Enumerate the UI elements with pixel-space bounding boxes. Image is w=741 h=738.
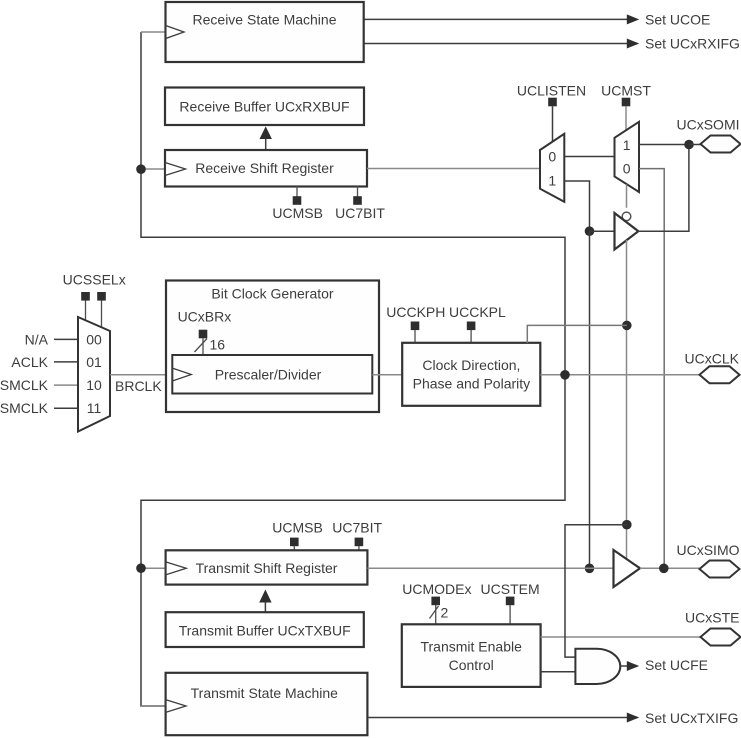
svg-text:UC7BIT: UC7BIT	[332, 519, 382, 535]
svg-text:Set UCxRXIFG: Set UCxRXIFG	[645, 36, 740, 52]
svg-text:SMCLK: SMCLK	[0, 377, 49, 393]
wire SMCLK input (selected, gray)	[54, 384, 78, 386]
node junction at buffer input	[585, 226, 595, 236]
wire UCSTEM tap	[509, 605, 511, 624]
pin square UCMSB (transmit)	[290, 538, 299, 547]
svg-text:Set UCFE: Set UCFE	[645, 657, 708, 673]
svg-text:Transmit Shift Register: Transmit Shift Register	[196, 560, 338, 576]
wire master mux row1 to SOMI pad	[639, 144, 689, 146]
node junction at SOMI pad	[684, 140, 694, 150]
pin square UCMST	[622, 98, 631, 107]
svg-text:Transmit Enable: Transmit Enable	[420, 639, 522, 655]
wire clock direction control from UCMST	[527, 325, 627, 343]
box Transmit Enable Control	[402, 624, 541, 687]
wire UCLISTEN control	[552, 106, 554, 142]
bus slash 2	[430, 606, 439, 619]
wire Set UCxRXIFG	[364, 39, 640, 49]
svg-text:UCCKPL: UCCKPL	[449, 304, 506, 320]
svg-text:UCMODEx: UCMODEx	[402, 581, 471, 597]
wire listen mux row1 loop down	[564, 181, 589, 231]
wire SOMI buffer output up to pad	[638, 145, 689, 232]
box Bit Clock Generator	[166, 281, 379, 413]
pin square UC7BIT (transmit)	[355, 538, 364, 547]
wire UCCKPH tap	[414, 330, 416, 343]
wire loopback vertical to transmit output	[589, 231, 591, 568]
svg-text:Set UCxTXIFG: Set UCxTXIFG	[645, 710, 738, 726]
box Receive Buffer UCxRXBUF	[165, 88, 364, 126]
svg-text:SMCLK: SMCLK	[0, 400, 49, 416]
svg-text:Control: Control	[449, 657, 494, 673]
mux UCLISTEN	[540, 134, 564, 202]
svg-text:00: 00	[86, 331, 102, 347]
wire SIMO buffer output to pad	[640, 567, 701, 569]
svg-text:UCSSELx: UCSSELx	[63, 271, 126, 287]
wire BRCLK	[110, 374, 172, 376]
svg-text:UCxBRx: UCxBRx	[178, 309, 232, 325]
wire UCCKPL tap	[470, 330, 472, 343]
pin square UCSTEM	[506, 597, 515, 606]
wire UCSSELx select lines	[85, 301, 87, 321]
wire and-gate lower input	[541, 671, 576, 673]
svg-text:UCMSB: UCMSB	[272, 205, 323, 221]
node junction direction control	[622, 321, 632, 331]
pin square UCCKPH	[411, 322, 420, 331]
box Prescaler/Divider	[172, 355, 372, 394]
pin square UCLISTEN	[548, 98, 557, 107]
wire UCMST rail (below buffer)	[626, 240, 628, 559]
svg-text:UCxCLK: UCxCLK	[685, 350, 740, 366]
clock input triangle (transmit shift register)	[166, 562, 186, 575]
svg-text:Bit Clock Generator: Bit Clock Generator	[211, 286, 333, 302]
arrow transmit buffer to shift register	[259, 590, 271, 612]
clock input triangle (transmit state machine)	[166, 700, 186, 713]
svg-text:ACLK: ACLK	[11, 354, 48, 370]
pin square UCMODEx	[431, 597, 440, 606]
svg-text:UCSTEM: UCSTEM	[481, 581, 540, 597]
svg-text:UCCKPH: UCCKPH	[386, 304, 445, 320]
svg-text:BRCLK: BRCLK	[115, 378, 162, 394]
pin square UCSSELx bit0	[81, 292, 90, 301]
pad UCxSIMO	[700, 561, 740, 578]
svg-text:16: 16	[210, 336, 226, 352]
wire UCMSB tap (receive)	[296, 186, 298, 197]
node junction receive clock	[136, 164, 146, 174]
svg-text:01: 01	[86, 354, 102, 370]
wire stub to transmit shift register clock	[141, 567, 166, 569]
svg-text:N/A: N/A	[25, 331, 49, 347]
pad UCxSOMI	[701, 136, 741, 153]
svg-text:UCMST: UCMST	[601, 83, 651, 99]
wire N/A input	[54, 338, 78, 340]
svg-text:Receive Shift Register: Receive Shift Register	[195, 160, 334, 176]
svg-text:0: 0	[623, 161, 631, 177]
wire Set UCxTXIFG	[367, 713, 639, 723]
wire Set UCFE	[620, 661, 639, 671]
wire UCMST control (gray rail upper)	[625, 106, 627, 130]
wire clock rail (UCxCLK to receive/transmit state machines)	[141, 32, 565, 706]
node junction and-gate feed	[622, 520, 632, 530]
box U1 Receive State Machine	[166, 2, 364, 62]
svg-text:UCxSTE: UCxSTE	[685, 610, 739, 626]
wire receive shift register output to listen mux	[367, 168, 540, 170]
svg-text:UCLISTEN: UCLISTEN	[517, 83, 586, 99]
node junction transmit clock	[136, 563, 146, 573]
svg-text:1: 1	[548, 173, 556, 189]
node junction clock rail	[560, 370, 570, 380]
svg-text:Receive State Machine: Receive State Machine	[193, 12, 337, 28]
pin square UCCKPL	[467, 322, 476, 331]
svg-text:2: 2	[441, 605, 449, 621]
svg-text:Receive Buffer UCxRXBUF: Receive Buffer UCxRXBUF	[179, 99, 349, 115]
svg-text:UCxSIMO: UCxSIMO	[677, 542, 740, 558]
box Transmit Buffer UCxTXBUF	[166, 612, 364, 647]
wire prescaler output to clock direction	[372, 374, 401, 376]
buffer output driver (SOMI)	[615, 213, 639, 250]
bus slash 16	[195, 339, 208, 353]
wire master mux row0 loopback	[639, 169, 664, 566]
box Receive Shift Register	[165, 150, 367, 187]
wire UCMST rail (mux to buffer bubble)	[626, 184, 628, 207]
wire transmit shift output to SIMO buffer	[367, 567, 613, 569]
wire SMCLK input	[54, 407, 78, 409]
node junction on transmit output	[585, 564, 595, 574]
pad UCxCLK	[700, 366, 740, 383]
clock input triangle (prescaler)	[173, 368, 192, 381]
wire UCxSTE line	[541, 636, 701, 638]
arrow receive shift to receive buffer	[260, 126, 272, 150]
svg-text:Clock Direction,: Clock Direction,	[422, 357, 520, 373]
pin square UCSSELx bit1	[97, 292, 106, 301]
clock input triangle (receive state machine)	[166, 26, 184, 39]
box Clock Direction Phase and Polarity	[402, 343, 540, 406]
wire to SOMI pad	[689, 144, 701, 146]
pin square UCxBRx	[199, 330, 208, 339]
svg-text:UCMSB: UCMSB	[272, 519, 323, 535]
wire stub to receive shift register clock	[141, 31, 166, 33]
gate AND (Set UCFE)	[575, 649, 620, 684]
wire UCMSB tap (transmit)	[293, 546, 295, 550]
svg-text:10: 10	[86, 377, 102, 393]
mux UCSSELx clock select	[78, 317, 110, 432]
box Transmit Shift Register	[166, 550, 368, 584]
svg-text:0: 0	[548, 149, 556, 165]
wire UCxCLK output	[540, 374, 700, 376]
mux UCMST	[615, 122, 640, 192]
wire buffer input	[590, 230, 615, 232]
wire UC7BIT tap (transmit)	[358, 546, 360, 550]
buffer output driver (SOMI) bubble	[622, 212, 631, 221]
wire listen mux row0 to master mux	[564, 156, 614, 158]
wire Set UCOE	[364, 14, 640, 24]
svg-text:UC7BIT: UC7BIT	[335, 205, 385, 221]
pad UCxSTE	[701, 629, 741, 646]
svg-text:Transmit Buffer UCxTXBUF: Transmit Buffer UCxTXBUF	[179, 623, 351, 639]
svg-text:Set UCOE: Set UCOE	[645, 12, 710, 28]
wire stub to transmit state machine clock	[141, 705, 166, 707]
wire ACLK input	[54, 361, 78, 363]
wire UCMODEx bus	[435, 605, 437, 624]
wire UCxBRx bus	[202, 338, 204, 355]
box Transmit State Machine	[166, 673, 368, 735]
buffer output driver (SIMO)	[614, 550, 641, 587]
svg-text:1: 1	[623, 137, 631, 153]
svg-text:Transmit State Machine: Transmit State Machine	[191, 685, 339, 701]
node junction SIMO loopback	[659, 564, 669, 574]
svg-text:Prescaler/Divider: Prescaler/Divider	[215, 366, 322, 382]
pin square UCMSB (receive)	[293, 196, 302, 205]
wire stub to receive shift register clock	[141, 168, 165, 170]
wire and-gate feed from UCMST rail	[565, 525, 627, 657]
svg-text:Phase and Polarity: Phase and Polarity	[413, 375, 531, 391]
pin square UC7BIT (receive)	[353, 196, 362, 205]
wire UC7BIT tap (receive)	[357, 186, 359, 197]
clock input triangle (receive shift register)	[165, 163, 185, 176]
svg-text:11: 11	[87, 400, 102, 416]
svg-text:UCxSOMI: UCxSOMI	[677, 117, 740, 133]
